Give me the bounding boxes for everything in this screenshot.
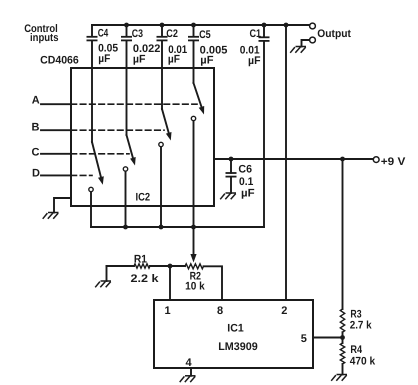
svg-text:1: 1 bbox=[165, 305, 171, 317]
svg-text:2.2 k: 2.2 k bbox=[131, 273, 160, 285]
svg-text:IC1: IC1 bbox=[227, 323, 243, 335]
svg-text:C5: C5 bbox=[199, 29, 211, 41]
svg-text:A: A bbox=[32, 95, 40, 107]
svg-text:C: C bbox=[32, 147, 40, 159]
svg-text:C1: C1 bbox=[250, 28, 262, 40]
svg-text:C3: C3 bbox=[132, 28, 143, 40]
svg-text:C6: C6 bbox=[238, 164, 252, 176]
svg-text:+9 V: +9 V bbox=[381, 156, 406, 168]
svg-text:LM3909: LM3909 bbox=[218, 341, 258, 353]
svg-text:10 k: 10 k bbox=[185, 281, 205, 293]
svg-text:D: D bbox=[32, 168, 40, 180]
svg-text:8: 8 bbox=[217, 305, 223, 317]
svg-text:R4: R4 bbox=[350, 344, 362, 356]
svg-text:µF: µF bbox=[98, 53, 110, 65]
svg-text:C4: C4 bbox=[98, 28, 109, 40]
svg-text:0.1: 0.1 bbox=[239, 176, 253, 188]
svg-text:470 k: 470 k bbox=[350, 355, 376, 367]
svg-text:5: 5 bbox=[301, 333, 307, 345]
svg-text:R1: R1 bbox=[134, 254, 147, 266]
svg-text:2: 2 bbox=[281, 305, 287, 317]
svg-text:B: B bbox=[32, 122, 40, 134]
svg-text:CD4066: CD4066 bbox=[40, 55, 79, 67]
svg-text:inputs: inputs bbox=[30, 32, 59, 44]
svg-text:µF: µF bbox=[241, 188, 255, 200]
svg-text:Output: Output bbox=[317, 28, 351, 40]
svg-text:IC2: IC2 bbox=[136, 192, 151, 204]
svg-text:C2: C2 bbox=[166, 28, 178, 40]
svg-text:2.7 k: 2.7 k bbox=[350, 320, 373, 332]
svg-text:4: 4 bbox=[186, 357, 193, 369]
svg-text:µF: µF bbox=[200, 55, 213, 67]
svg-text:µF: µF bbox=[248, 55, 261, 67]
svg-text:µF: µF bbox=[168, 54, 180, 66]
svg-text:µF: µF bbox=[133, 54, 146, 66]
